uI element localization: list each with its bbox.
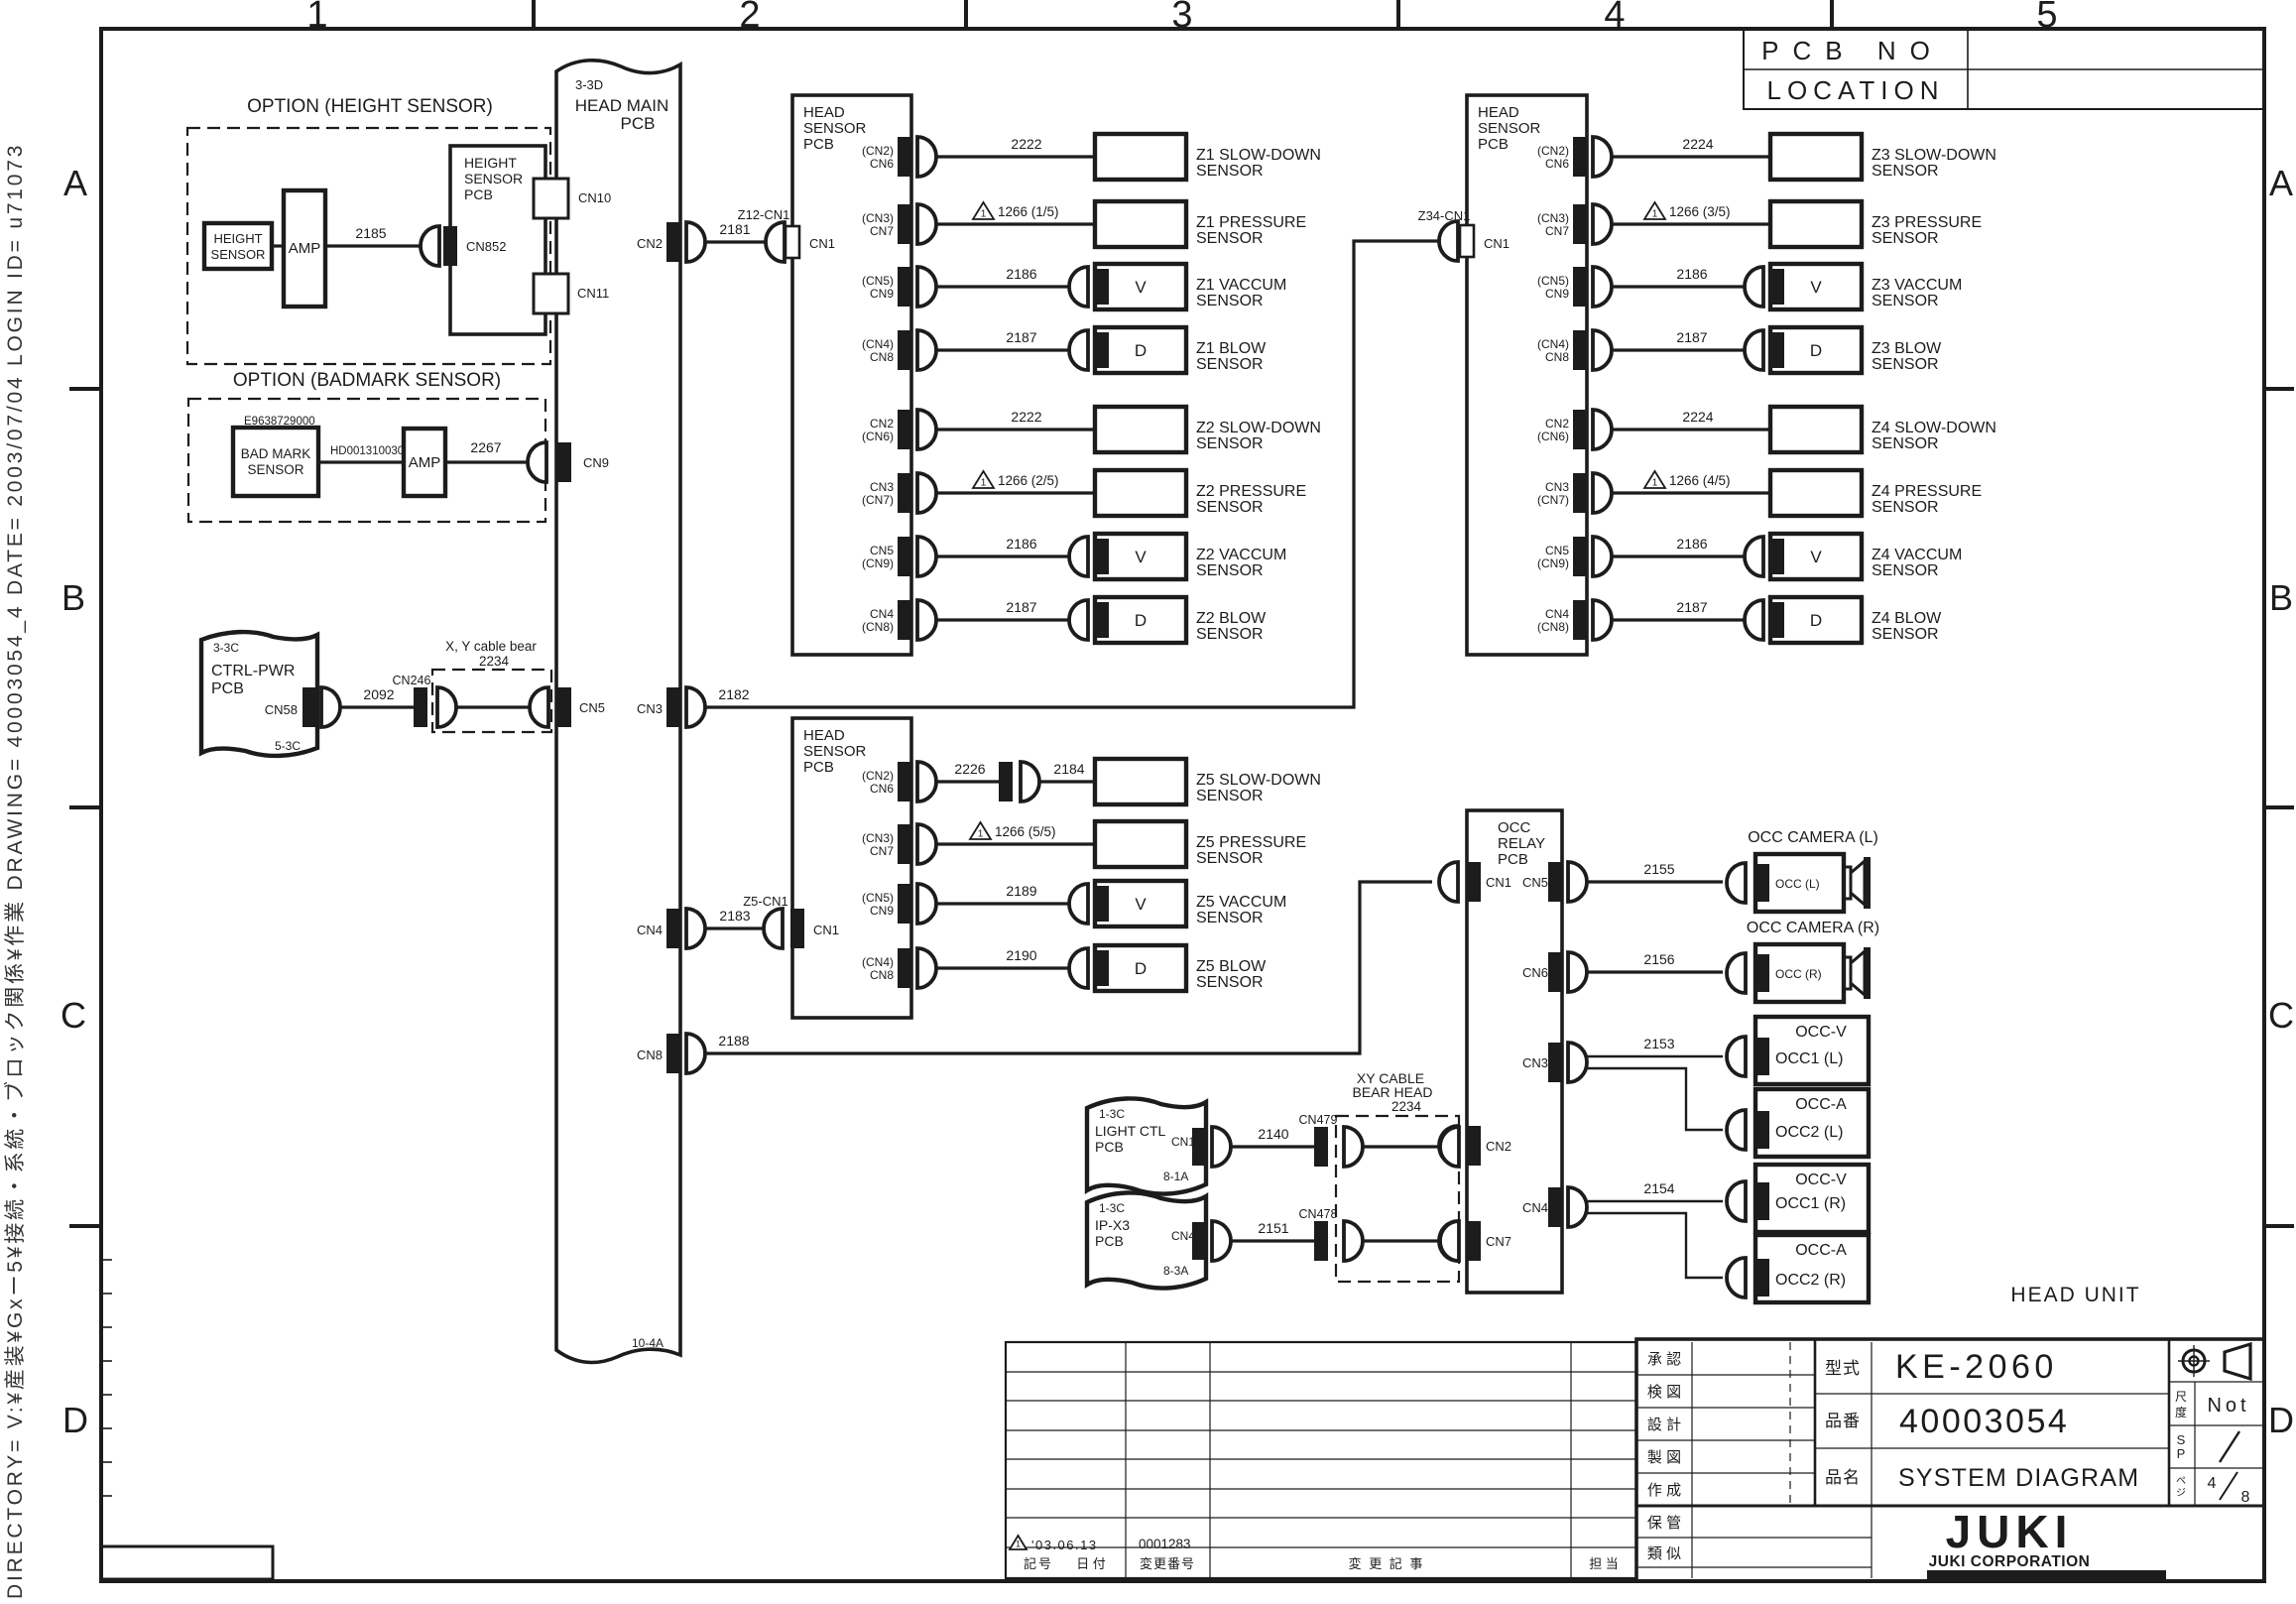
svg-text:OCC-A: OCC-A (1795, 1096, 1847, 1113)
svg-text:2234: 2234 (479, 654, 510, 669)
connector CN6 (OCC RELAY) (1548, 952, 1562, 992)
svg-text:CN1: CN1 (1171, 1135, 1195, 1149)
svg-text:担 当: 担 当 (1589, 1556, 1619, 1571)
sensor box Z5 VACCUM SENSOR (1095, 881, 1186, 926)
plug at OCC1 (L) (1727, 1037, 1746, 1076)
plug right in cable bear (530, 687, 548, 727)
wire (1612, 491, 1770, 494)
svg-text:(CN2): (CN2) (1537, 144, 1569, 158)
svg-text:Z5 VACCUM: Z5 VACCUM (1196, 894, 1286, 911)
plug at CN8 (1593, 330, 1612, 370)
plug at CN9 (1593, 537, 1612, 576)
plug at OCC (L) (1727, 863, 1746, 903)
svg-text:IP-X3: IP-X3 (1095, 1217, 1130, 1233)
svg-text:HEAD UNIT: HEAD UNIT (2010, 1284, 2140, 1306)
svg-text:(CN7): (CN7) (862, 493, 894, 507)
sensor box Z3 SLOW-DOWN SENSOR (1770, 134, 1862, 180)
plug at CN2 (686, 222, 705, 262)
svg-text:CN1: CN1 (813, 923, 839, 937)
svg-text:(CN5): (CN5) (862, 891, 894, 905)
svg-text:(CN3): (CN3) (862, 831, 894, 845)
svg-text:4: 4 (1604, 0, 1625, 36)
svg-text:SENSOR: SENSOR (1196, 910, 1264, 926)
zone tick top 1|2 (532, 0, 536, 29)
sensor box Z5 PRESSURE SENSOR (1095, 821, 1186, 867)
svg-text:D: D (1135, 341, 1147, 360)
svg-text:5: 5 (2036, 0, 2057, 36)
block BAD MARK SENSOR (233, 428, 318, 496)
svg-text:(CN8): (CN8) (1537, 620, 1569, 634)
svg-text:D: D (62, 1400, 88, 1440)
svg-text:日 付: 日 付 (1076, 1556, 1106, 1571)
svg-text:類 似: 類 似 (1647, 1545, 1681, 1562)
svg-text:2092: 2092 (363, 686, 394, 702)
sensor box Z5 BLOW SENSOR (1095, 945, 1186, 991)
svg-text:B: B (61, 577, 85, 618)
svg-text:(CN7): (CN7) (1537, 493, 1569, 507)
wire 2224 (1612, 155, 1770, 158)
svg-text:SENSOR: SENSOR (1872, 435, 1939, 452)
wire 2187 (1612, 618, 1745, 621)
wire 2226 (936, 780, 999, 783)
svg-text:'03.06.13: '03.06.13 (1031, 1538, 1098, 1552)
plug Z12-CN1 (766, 222, 785, 262)
plug at OCC RELAY CN7 (1439, 1221, 1458, 1261)
svg-text:(CN9): (CN9) (862, 556, 894, 570)
svg-text:8-1A: 8-1A (1163, 1170, 1188, 1183)
plug left (2151 row) in bear head (1344, 1221, 1363, 1261)
svg-text:2189: 2189 (1006, 883, 1036, 899)
plug at IP-X3 CN4 (1212, 1221, 1231, 1261)
wire 2222 (936, 155, 1095, 158)
svg-text:CN7: CN7 (870, 844, 894, 858)
svg-text:AMP: AMP (409, 454, 441, 471)
svg-text:OCC: OCC (1498, 819, 1531, 836)
wire 2186 (1612, 555, 1745, 557)
svg-text:CN3: CN3 (637, 701, 663, 716)
svg-text:2154: 2154 (1643, 1180, 1674, 1196)
sensor box Z2 BLOW SENSOR (1095, 597, 1186, 643)
svg-text:HEAD: HEAD (803, 727, 845, 744)
svg-text:CN2: CN2 (1545, 417, 1569, 431)
svg-text:V: V (1810, 278, 1822, 297)
connector CN7 (OCC RELAY) (1467, 1221, 1481, 1261)
svg-text:承 認: 承 認 (1647, 1351, 1681, 1368)
svg-text:(CN6): (CN6) (1537, 430, 1569, 443)
plug at CN5 (OCC RELAY) (1568, 862, 1587, 902)
plug at OCC (R) (1727, 953, 1746, 993)
sensor box Z3 VACCUM SENSOR (1770, 264, 1862, 309)
svg-text:CN6: CN6 (870, 157, 894, 171)
wire 2187 (936, 348, 1069, 351)
svg-text:CN6: CN6 (870, 782, 894, 796)
svg-text:2181: 2181 (719, 221, 750, 237)
wire 2182 (705, 241, 1439, 707)
wire in bear head (2140 row) (1363, 1145, 1440, 1148)
connector plug at CN58 (321, 687, 340, 727)
svg-text:SENSOR: SENSOR (1872, 562, 1939, 579)
svg-text:2187: 2187 (1676, 329, 1707, 345)
svg-text:(CN9): (CN9) (1537, 556, 1569, 570)
plug at CN8 (917, 948, 936, 988)
wire in cable bear (456, 705, 530, 708)
sensor box Z3 PRESSURE SENSOR (1770, 201, 1862, 247)
svg-text:HEAD: HEAD (803, 104, 845, 121)
box OCC1 (L) (1755, 1017, 1869, 1084)
svg-text:A: A (63, 163, 87, 203)
svg-text:OCC CAMERA (R): OCC CAMERA (R) (1747, 920, 1879, 936)
svg-text:2151: 2151 (1258, 1220, 1288, 1236)
box OCC2 (L) (1755, 1089, 1869, 1157)
svg-text:(CN4): (CN4) (1537, 337, 1569, 351)
svg-text:OCC1 (R): OCC1 (R) (1775, 1195, 1846, 1212)
svg-text:CN1: CN1 (1486, 875, 1511, 890)
svg-text:CN5: CN5 (1545, 544, 1569, 557)
svg-text:2156: 2156 (1643, 951, 1674, 967)
svg-text:度: 度 (2175, 1405, 2187, 1419)
svg-text:5-3C: 5-3C (275, 739, 301, 753)
connector CN58 (302, 687, 316, 727)
svg-text:(CN8): (CN8) (862, 620, 894, 634)
svg-text:2186: 2186 (1676, 536, 1707, 552)
connector CN1 (OCC RELAY) (1467, 862, 1481, 902)
svg-text:Z5 PRESSURE: Z5 PRESSURE (1196, 834, 1306, 851)
svg-text:V: V (1135, 548, 1147, 566)
svg-text:SENSOR: SENSOR (211, 247, 266, 262)
svg-text:SENSOR: SENSOR (1872, 293, 1939, 309)
svg-text:SENSOR: SENSOR (1196, 163, 1264, 180)
svg-text:CN4: CN4 (1545, 607, 1569, 621)
plug at CN6 (Z5) (917, 762, 936, 802)
plug at Z3 VACCUM SENSOR (1745, 267, 1763, 307)
zone tick top 2|3 (964, 0, 968, 29)
svg-text:1266 (4/5): 1266 (4/5) (1669, 473, 1731, 488)
warning 1 label 1266 (1/5) (973, 202, 994, 219)
plug at CN6 (1593, 410, 1612, 449)
svg-text:CN5: CN5 (579, 700, 605, 715)
sensor box Z2 SLOW-DOWN SENSOR (1095, 407, 1186, 452)
PCB NO / LOCATION table (1744, 29, 2264, 109)
svg-text:3-3D: 3-3D (575, 77, 603, 92)
svg-text:2234: 2234 (1391, 1099, 1422, 1114)
svg-text:RELAY: RELAY (1498, 835, 1545, 852)
svg-text:X, Y cable bear: X, Y cable bear (445, 639, 537, 654)
camera box OCC (L) (1755, 854, 1844, 912)
svg-text:SENSOR: SENSOR (1196, 356, 1264, 373)
svg-text:PCB: PCB (1478, 136, 1509, 153)
svg-text:CN479: CN479 (1299, 1113, 1338, 1127)
svg-text:CN478: CN478 (1299, 1207, 1338, 1221)
connector CN4 (OCC RELAY) (1548, 1187, 1562, 1227)
svg-text:1266 (2/5): 1266 (2/5) (998, 473, 1059, 488)
plug at OCC RELAY CN2 (1439, 1126, 1458, 1166)
svg-text:OCC-V: OCC-V (1795, 1024, 1847, 1041)
storage/similar table (1636, 1537, 1872, 1539)
wire 2092 (340, 705, 414, 708)
svg-text:SENSOR: SENSOR (1196, 562, 1264, 579)
svg-text:SENSOR: SENSOR (1872, 230, 1939, 247)
sensor box Z3 BLOW SENSOR (1770, 327, 1862, 373)
sensor box Z4 BLOW SENSOR (1770, 597, 1862, 643)
svg-text:Z4 SLOW-DOWN: Z4 SLOW-DOWN (1872, 420, 1996, 436)
model/part/name table (1871, 1342, 1873, 1578)
svg-text:CN9: CN9 (870, 287, 894, 301)
connector CN1 (HEAD SENSOR PCB 3) (790, 909, 804, 948)
svg-text:Z34-CN1: Z34-CN1 (1418, 208, 1471, 223)
block HEAD SENSOR PCB (Z3/Z4) (1467, 95, 1587, 655)
svg-text:OCC CAMERA (L): OCC CAMERA (L) (1748, 829, 1878, 846)
svg-text:CN4: CN4 (1522, 1200, 1548, 1215)
inline connector on 2226/2184 (999, 762, 1013, 802)
sensor box Z1 PRESSURE SENSOR (1095, 201, 1186, 247)
plug at CN3 (686, 687, 705, 727)
connector CN4 (HEAD MAIN PCB) (666, 909, 680, 948)
svg-text:(CN2): (CN2) (862, 144, 894, 158)
plug at Z1 VACCUM SENSOR (1069, 267, 1088, 307)
svg-text:SENSOR: SENSOR (1196, 850, 1264, 867)
plug at CN6 (1593, 137, 1612, 177)
wire 2222 (936, 428, 1095, 431)
svg-text:OPTION (HEIGHT SENSOR): OPTION (HEIGHT SENSOR) (247, 96, 493, 117)
svg-text:2222: 2222 (1011, 409, 1041, 425)
svg-text:A: A (2269, 163, 2293, 203)
svg-text:CN6: CN6 (1522, 965, 1548, 980)
svg-text:V: V (1135, 895, 1147, 914)
svg-text:1266 (5/5): 1266 (5/5) (995, 824, 1056, 839)
block HEIGHT SENSOR PCB (450, 146, 545, 334)
dashed box option height sensor (187, 128, 550, 364)
svg-text:HEAD MAIN: HEAD MAIN (575, 96, 668, 115)
svg-text:1: 1 (1652, 478, 1658, 489)
block HEAD MAIN PCB (556, 61, 680, 1363)
wire 2153 to OCC1(L) (1587, 1055, 1723, 1057)
svg-text:1: 1 (306, 0, 327, 36)
plug at CN7 (917, 473, 936, 513)
zone tick left B|C (69, 805, 101, 809)
connector plug at CN852 (421, 226, 439, 266)
wire in bear head (2151 row) (1363, 1239, 1440, 1242)
svg-text:JUKI: JUKI (1946, 1506, 2074, 1557)
svg-text:1-3C: 1-3C (1099, 1201, 1125, 1215)
svg-text:C: C (2268, 995, 2294, 1036)
plug at CN4 (686, 909, 705, 948)
svg-text:設 計: 設 計 (1647, 1417, 1681, 1433)
sensor box Z4 VACCUM SENSOR (1770, 534, 1862, 579)
svg-text:0001283: 0001283 (1139, 1537, 1191, 1551)
connector CN1 (HEAD SENSOR PCB 1) (785, 226, 799, 258)
svg-text:CN9: CN9 (583, 455, 609, 470)
svg-text:S: S (2177, 1432, 2186, 1447)
svg-text:2224: 2224 (1682, 409, 1713, 425)
connector CN1 (LIGHT CTL) (1192, 1128, 1206, 1166)
svg-text:D: D (1810, 341, 1822, 360)
connector CN5 (OCC RELAY) (1548, 862, 1562, 902)
revision table (1006, 1342, 1636, 1578)
svg-text:40003054: 40003054 (1899, 1403, 2069, 1440)
svg-text:CN852: CN852 (466, 239, 506, 254)
svg-text:HEIGHT: HEIGHT (213, 231, 262, 246)
wire 2156 (1587, 970, 1723, 973)
plug left in cable bear (437, 687, 456, 727)
svg-text:Z5-CN1: Z5-CN1 (743, 894, 788, 909)
svg-text:CN9: CN9 (1545, 287, 1569, 301)
connector CN8 (HEAD MAIN PCB) (666, 1034, 680, 1073)
wire HD001310030 (318, 460, 404, 463)
plug at Z4 VACCUM SENSOR (1745, 537, 1763, 576)
camera box OCC (R) (1755, 944, 1844, 1002)
ruler ticks left border (101, 1259, 112, 1261)
svg-text:PCB: PCB (1095, 1139, 1124, 1155)
svg-text:2186: 2186 (1006, 266, 1036, 282)
svg-text:CN4: CN4 (637, 923, 663, 937)
svg-text:1266 (3/5): 1266 (3/5) (1669, 204, 1731, 219)
svg-text:SENSOR: SENSOR (1196, 230, 1264, 247)
camera lens OCC (R) (1844, 957, 1851, 989)
connector CN4 (IP-X3) (1192, 1222, 1206, 1260)
plug at CN8 (686, 1034, 705, 1073)
svg-text:OCC1 (L): OCC1 (L) (1775, 1050, 1843, 1067)
svg-text:SENSOR: SENSOR (247, 462, 303, 477)
svg-text:尺: 尺 (2175, 1390, 2187, 1404)
plug at CN8 (1593, 600, 1612, 640)
wire (936, 842, 1095, 845)
svg-text:Z2 SLOW-DOWN: Z2 SLOW-DOWN (1196, 420, 1321, 436)
svg-text:CN3: CN3 (870, 480, 894, 494)
svg-text:(CN4): (CN4) (862, 337, 894, 351)
svg-text:CN8: CN8 (870, 350, 894, 364)
svg-text:Z5 BLOW: Z5 BLOW (1196, 958, 1267, 975)
svg-text:PCB NO: PCB NO (1761, 36, 1944, 65)
wire 2140 (1231, 1145, 1314, 1148)
svg-text:2188: 2188 (718, 1033, 749, 1049)
svg-text:CN6: CN6 (1545, 157, 1569, 171)
block IP-X3 PCB (1087, 1192, 1206, 1288)
svg-text:OCC2 (R): OCC2 (R) (1775, 1272, 1846, 1289)
connector CN3 (HEAD MAIN PCB) (666, 687, 680, 727)
svg-text:(CN5): (CN5) (1537, 274, 1569, 288)
svg-text:C: C (60, 995, 86, 1036)
plug at CN4 (OCC RELAY) (1568, 1187, 1587, 1227)
svg-text:JUKI CORPORATION: JUKI CORPORATION (1929, 1553, 2091, 1570)
svg-text:Z3 SLOW-DOWN: Z3 SLOW-DOWN (1872, 147, 1996, 164)
svg-text:CN246: CN246 (393, 674, 431, 687)
wire 2183 (705, 926, 764, 929)
zone tick left A|B (69, 387, 101, 391)
svg-text:CN3: CN3 (1545, 480, 1569, 494)
svg-text:CN2: CN2 (637, 236, 663, 251)
svg-text:1: 1 (981, 478, 987, 489)
svg-text:OCC-V: OCC-V (1795, 1172, 1847, 1188)
svg-text:2140: 2140 (1258, 1126, 1288, 1142)
zone tick top 4|5 (1830, 0, 1834, 29)
svg-text:製 図: 製 図 (1647, 1449, 1681, 1466)
wire (936, 222, 1095, 225)
warning 1 label 1266 (3/5) (1644, 202, 1665, 219)
svg-text:Z2 BLOW: Z2 BLOW (1196, 610, 1267, 627)
svg-text:作 成: 作 成 (1647, 1482, 1681, 1499)
svg-text:CN1: CN1 (809, 236, 835, 251)
svg-text:Z5 SLOW-DOWN: Z5 SLOW-DOWN (1196, 772, 1321, 789)
revision entry 1 (1010, 1536, 1027, 1549)
svg-text:変 更 記 事: 変 更 記 事 (1349, 1556, 1425, 1571)
svg-text:PCB: PCB (1498, 851, 1528, 868)
svg-text:BAD MARK: BAD MARK (241, 446, 311, 461)
plug at Z1 BLOW SENSOR (1069, 330, 1088, 370)
plug at OCC1 (R) (1727, 1181, 1746, 1221)
svg-text:2153: 2153 (1643, 1036, 1674, 1051)
svg-text:変更番号: 変更番号 (1140, 1556, 1195, 1571)
svg-text:SENSOR: SENSOR (1196, 788, 1264, 804)
plug at CN9 (917, 884, 936, 924)
svg-text:CN4: CN4 (1171, 1229, 1195, 1243)
svg-text:CN8: CN8 (870, 968, 894, 982)
svg-text:SENSOR: SENSOR (1872, 356, 1939, 373)
plug at CN7 (917, 204, 936, 244)
svg-text:SENSOR: SENSOR (1478, 120, 1541, 137)
svg-text:2183: 2183 (719, 908, 750, 924)
svg-text:OCC (R): OCC (R) (1775, 967, 1822, 981)
plug at Z4 BLOW SENSOR (1745, 600, 1763, 640)
svg-text:2224: 2224 (1682, 136, 1713, 152)
plug at CN3 (OCC RELAY) (1568, 1043, 1587, 1082)
connector CN10 (534, 179, 568, 218)
svg-text:(CN6): (CN6) (862, 430, 894, 443)
connector CN246 (414, 687, 427, 727)
svg-text:CN58: CN58 (265, 702, 298, 717)
svg-text:D: D (2268, 1400, 2294, 1440)
connector CN3 (OCC RELAY) (1548, 1043, 1562, 1082)
sensor box Z5 SLOW-DOWN SENSOR (1095, 759, 1186, 804)
plug Z34-CN1 (1439, 221, 1458, 261)
svg-text:3: 3 (1171, 0, 1192, 36)
svg-text:CN3: CN3 (1522, 1055, 1548, 1070)
svg-text:4: 4 (2208, 1475, 2217, 1492)
plug right (2151 row) in bear head (1440, 1221, 1459, 1261)
svg-text:SENSOR: SENSOR (1196, 974, 1264, 991)
svg-text:LIGHT CTL: LIGHT CTL (1095, 1123, 1166, 1139)
dashed box XY cable bear head (1336, 1116, 1459, 1282)
connector CN11 (534, 274, 568, 313)
approval table (1636, 1505, 2264, 1508)
svg-text:CN2: CN2 (870, 417, 894, 431)
svg-text:CN7: CN7 (1545, 224, 1569, 238)
dashed box option badmark sensor (188, 399, 545, 522)
zone tick right B|C (2264, 805, 2294, 809)
plug left (2140 row) in bear head (1344, 1127, 1363, 1167)
svg-text:SENSOR: SENSOR (1196, 293, 1264, 309)
wire 2189 (936, 902, 1069, 905)
svg-text:保 管: 保 管 (1647, 1515, 1681, 1532)
svg-text:BEAR HEAD: BEAR HEAD (1353, 1084, 1433, 1100)
svg-text:ジ: ジ (2176, 1488, 2186, 1499)
plug at Z2 VACCUM SENSOR (1069, 537, 1088, 576)
svg-text:2187: 2187 (1006, 329, 1036, 345)
svg-text:1266 (1/5): 1266 (1/5) (998, 204, 1059, 219)
svg-text:PCB: PCB (621, 114, 656, 133)
svg-text:AMP: AMP (289, 240, 321, 257)
svg-text:DIRECTORY= V:¥産装¥Gxー5¥接続・系統・ブ: DIRECTORY= V:¥産装¥Gxー5¥接続・系統・ブロック関係¥作業 DR… (4, 143, 27, 1599)
connector CN852 (443, 226, 457, 266)
svg-text:OCC2 (L): OCC2 (L) (1775, 1124, 1843, 1141)
warning 1 label 1266 (4/5) (1644, 471, 1665, 488)
svg-text:2182: 2182 (718, 686, 749, 702)
svg-text:(CN4): (CN4) (862, 955, 894, 969)
svg-text:SENSOR: SENSOR (1196, 626, 1264, 643)
svg-text:PCB: PCB (803, 136, 834, 153)
plug at OCC2 (L) (1727, 1110, 1746, 1150)
wire 2185 (325, 244, 421, 247)
sensor box Z2 VACCUM SENSOR (1095, 534, 1186, 579)
